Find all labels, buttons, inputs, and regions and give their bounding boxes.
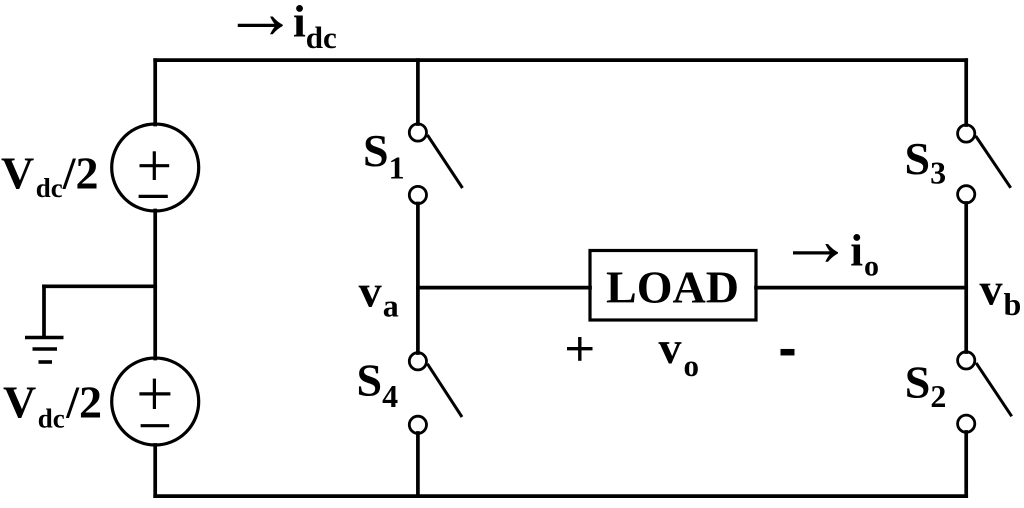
svg-text:vb: vb xyxy=(980,264,1022,322)
wire middle leg upper xyxy=(416,60,420,124)
switch S2 blade xyxy=(976,363,1012,416)
voltage source V1 minus sign xyxy=(139,195,168,198)
svg-text:Vdc/2: Vdc/2 xyxy=(3,377,102,434)
voltage source V2 minus sign xyxy=(141,424,170,427)
svg-text:vo: vo xyxy=(659,322,700,383)
svg-text:S4: S4 xyxy=(357,354,399,414)
wire left leg lower xyxy=(153,445,157,496)
wire ground branch horizontal xyxy=(44,284,155,288)
wire left leg upper xyxy=(153,60,157,124)
switch S2 bottom contact xyxy=(958,415,975,432)
switch S4 top contact xyxy=(409,353,426,370)
switch S4 bottom contact xyxy=(409,416,426,433)
switch S2 top contact xyxy=(958,352,975,369)
wire ground branch vertical xyxy=(42,286,46,336)
voltage source V2 plus sign xyxy=(139,379,170,409)
ground xyxy=(25,338,64,363)
voltage source V1 plus sign xyxy=(140,151,170,180)
voltage source V1 Vdc/2 circle xyxy=(112,124,199,211)
wire right leg between switches xyxy=(964,203,968,352)
switch S3 bottom contact xyxy=(958,186,975,203)
svg-text:→: → xyxy=(778,199,854,283)
switch S1 top contact xyxy=(409,124,426,141)
svg-text:→: → xyxy=(222,0,298,55)
svg-text:Vdc/2: Vdc/2 xyxy=(1,148,99,204)
wire bottom bus xyxy=(155,494,966,498)
wire middle leg between switches xyxy=(416,204,420,354)
svg-text:S3: S3 xyxy=(905,133,947,191)
svg-text:va: va xyxy=(359,266,399,324)
label plus polarity xyxy=(567,337,593,361)
switch S4 blade xyxy=(427,364,462,417)
label minus polarity xyxy=(781,349,795,356)
wire middle leg lower xyxy=(416,433,420,496)
svg-text:LOAD: LOAD xyxy=(606,261,739,312)
wire LOAD to node b xyxy=(756,286,966,290)
wire left leg between sources xyxy=(153,211,157,359)
svg-text:idc: idc xyxy=(293,0,337,55)
wire right leg lower xyxy=(964,432,968,496)
switch S1 blade xyxy=(427,135,462,188)
svg-text:io: io xyxy=(850,224,879,282)
svg-text:S1: S1 xyxy=(363,125,405,186)
switch S3 top contact xyxy=(958,125,975,142)
LOAD box xyxy=(590,251,756,321)
wire top bus xyxy=(155,58,966,62)
switch S1 bottom contact xyxy=(409,186,426,203)
switch S3 blade xyxy=(976,136,1011,188)
wire node a to LOAD xyxy=(418,286,590,290)
svg-text:S2: S2 xyxy=(905,356,947,414)
voltage source V2 Vdc/2 circle xyxy=(112,358,199,445)
wire right leg upper xyxy=(964,60,968,125)
